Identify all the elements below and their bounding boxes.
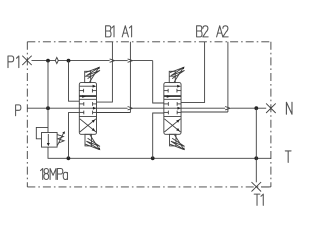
port P1 plug X xyxy=(22,56,31,65)
relief valve spring xyxy=(57,135,64,143)
label P xyxy=(16,105,21,116)
label B2 xyxy=(197,26,202,37)
wire: B2 riser xyxy=(181,42,205,103)
node: dot T/mid drain xyxy=(151,156,155,160)
label A2 xyxy=(217,26,223,37)
node: junction dot P1/relief riser xyxy=(46,59,50,63)
wire: valve1 left drain to T xyxy=(69,113,80,159)
relief valve pilot line xyxy=(36,127,48,138)
V2 pos1 flow arrow xyxy=(164,85,179,87)
relief valve flow arrow xyxy=(47,134,49,143)
crossing hop A1 xyxy=(128,59,133,62)
enclosure boundary (dash-dot) xyxy=(27,42,271,187)
V1 P-line arrowhead xyxy=(93,107,97,110)
V1 pos2 blocked ports upper xyxy=(79,103,84,105)
V1 pos2 blocked ports lower xyxy=(79,111,84,113)
V1 pos3 crossed arrows xyxy=(80,119,96,132)
wire: T1 stub to corner xyxy=(261,186,271,188)
wire: valve1 A port line xyxy=(97,112,131,114)
V2 pos2 blocked ports upper xyxy=(164,103,169,105)
V1 bottom arrow xyxy=(90,135,99,149)
V1 pos2 flow arrow xyxy=(80,96,97,98)
wire: A1 riser xyxy=(129,42,131,113)
V1 bottom spring cap xyxy=(85,134,91,146)
wire: valve2 left drain to T xyxy=(153,113,164,158)
V2 top adjust arrow xyxy=(174,68,183,82)
wire: valve2 A port line xyxy=(181,111,228,113)
V1 pos1 blocked ports xyxy=(79,90,83,92)
valve V1 body xyxy=(79,83,96,135)
wire: P carry-over line xyxy=(27,107,266,109)
V2 bottom spring xyxy=(170,138,185,149)
label N xyxy=(286,102,292,114)
node: junction dot P line / relief xyxy=(46,106,50,110)
V2 pos2 blocked ports lower xyxy=(164,111,169,113)
wire: mid riser feed valve2 from P1 line xyxy=(153,61,164,103)
V2 P-line arrowhead xyxy=(177,107,181,110)
V2 pos2 passage line xyxy=(164,98,181,100)
label B1 xyxy=(106,26,111,37)
relief valve adjust arrow xyxy=(57,133,63,145)
wire: relief outlet to T line xyxy=(48,147,68,158)
V2 bottom spring cap xyxy=(170,134,176,146)
wire: T return line xyxy=(68,157,271,159)
V2 top spring xyxy=(170,67,185,78)
node: dot T/T1 riser xyxy=(254,156,258,160)
label 18MPa xyxy=(41,169,43,180)
relief valve RV1 body xyxy=(42,133,58,148)
wire: riser to T1 xyxy=(255,108,257,182)
label A1 xyxy=(122,26,128,37)
V1 top spring xyxy=(85,67,100,78)
label P1 xyxy=(8,56,14,68)
crossing hop A1/P line xyxy=(128,107,133,110)
wire: P1 bypass line xyxy=(32,60,153,62)
V2 pos3 crossed arrows xyxy=(164,119,180,132)
V2 pos2 flow arrow xyxy=(164,96,181,98)
wire: riser P line down to relief valve xyxy=(47,108,49,132)
V1 bottom spring xyxy=(85,138,100,149)
port N plug X xyxy=(266,103,276,113)
crossing hop A2/P line xyxy=(225,107,230,110)
node: junction dot P1/valve1 riser xyxy=(67,59,71,63)
wire: riser P1 line to P line xyxy=(47,61,49,109)
label T1 xyxy=(254,194,260,205)
wire: riser valve1 feed from P1 line xyxy=(69,61,80,102)
wire: B1 riser xyxy=(97,42,113,102)
V2 bottom arrow xyxy=(175,135,184,149)
node: dot T/valve1 drain xyxy=(67,156,71,160)
crossing hop B1 xyxy=(110,59,115,62)
label T xyxy=(285,151,291,163)
V1 pos1 flow arrow xyxy=(80,85,95,87)
orifice diamond xyxy=(55,57,58,63)
node: junction dot P line / tank riser xyxy=(254,106,258,110)
V2 top pilot cap xyxy=(169,71,175,82)
V1 pos2 passage line xyxy=(79,98,96,100)
V1 top adjust arrow xyxy=(90,68,99,82)
valve V2 body xyxy=(164,83,181,135)
V1 top pilot cap xyxy=(85,71,91,82)
V2 pos1 blocked ports xyxy=(164,90,168,92)
port T1 plug X xyxy=(252,182,262,191)
wire: A2 riser xyxy=(227,42,229,112)
